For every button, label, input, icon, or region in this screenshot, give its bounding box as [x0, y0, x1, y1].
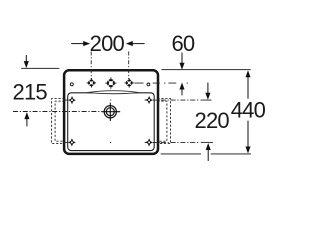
extension line above right tap hole [128, 52, 130, 80]
dimension 220 down arrow [205, 83, 210, 100]
dimension 440 label [231, 98, 266, 123]
extension line lower fixing row [64, 141, 213, 143]
basin outer rim [64, 70, 158, 154]
tap hole center [105, 78, 116, 89]
dimension 215 label [13, 80, 48, 105]
dimension 200 left arrow [71, 41, 90, 46]
fixing mark top left [68, 96, 76, 104]
pilot hole left [70, 83, 73, 86]
left fixing tab dashed [52, 99, 65, 144]
dimension 60 label [171, 31, 194, 56]
extension line upper fixing row [64, 99, 212, 101]
dimension 220 up arrow [206, 143, 211, 161]
bowl inner outline [68, 93, 155, 151]
dimension 215 down arrow [24, 55, 29, 68]
reference line back edge right [161, 69, 250, 71]
fixing mark bottom left [68, 138, 76, 146]
svg-text:440: 440 [231, 98, 266, 123]
svg-text:200: 200 [90, 31, 125, 56]
svg-text:60: 60 [171, 31, 194, 56]
fixing mark top right [145, 96, 153, 104]
pilot hole right [147, 83, 150, 86]
drain [101, 103, 120, 121]
reference line back edge left [21, 67, 59, 69]
overflow deck lens [87, 91, 140, 94]
dimension 200 right arrow [126, 41, 145, 46]
dimension 215 up arrow [24, 112, 29, 126]
dimension 440 up arrow [245, 70, 250, 99]
tap hole right [125, 78, 134, 87]
dimension 440 down arrow [245, 121, 250, 154]
centerline tap holes right extension [134, 82, 187, 84]
dimension 200 label [90, 31, 125, 56]
fixing mark bottom right [145, 138, 153, 146]
svg-text:215: 215 [13, 80, 48, 105]
tap hole left [87, 78, 96, 87]
extension line above left tap hole [90, 52, 92, 80]
dimension 60 down arrow [179, 53, 184, 70]
reference line front edge right [161, 153, 251, 155]
svg-text:220: 220 [195, 108, 230, 133]
dimension 220 label [195, 108, 230, 133]
dimension 60 up arrow [179, 83, 184, 96]
right fixing tab dashed [158, 99, 171, 144]
centerline horizontal through drain [13, 111, 102, 113]
